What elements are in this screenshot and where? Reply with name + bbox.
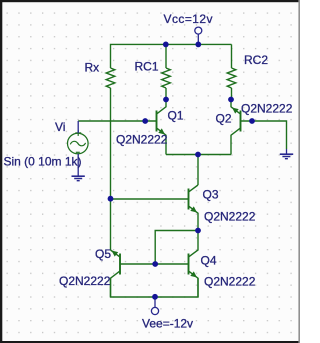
Vee bubble bbox=[154, 297, 156, 307]
svg-text:Q5: Q5 bbox=[95, 247, 111, 261]
resistor RC1 bbox=[165, 44, 167, 68]
Vcc bubble bbox=[195, 27, 202, 34]
transistor Q2 (rotated 180) bbox=[240, 111, 242, 132]
junction Q3 emitter / Q4 collector bbox=[195, 228, 201, 234]
Vi bottom pin stub bbox=[77, 154, 79, 176]
svg-text:Q1: Q1 bbox=[168, 109, 184, 123]
resistor Rx bbox=[106, 68, 115, 88]
svg-text:RC1: RC1 bbox=[135, 60, 159, 74]
junction Q1 base bbox=[142, 118, 148, 124]
transistor Q3 bbox=[188, 189, 190, 210]
wire left rail (Rx bottom to Q5 emitter) bbox=[110, 88, 112, 250]
transistor Q4 bbox=[188, 254, 190, 275]
wire tail node down to Q3 bbox=[197, 155, 199, 186]
svg-text:Vcc=12v: Vcc=12v bbox=[164, 12, 214, 26]
resistor RC2 bbox=[227, 68, 236, 88]
source Vi circle bbox=[68, 133, 89, 154]
ground AGND right of Q2 bbox=[286, 149, 288, 154]
svg-text:Q3: Q3 bbox=[203, 188, 219, 202]
transistor Q5 (rotated 180) bbox=[119, 254, 121, 275]
svg-text:RC2: RC2 bbox=[244, 53, 268, 67]
svg-text:Rx: Rx bbox=[85, 61, 100, 75]
svg-text:Q2N2222: Q2N2222 bbox=[116, 133, 168, 147]
junction Q3 base / left rail bbox=[108, 196, 114, 202]
svg-text:Q4: Q4 bbox=[201, 253, 217, 267]
Vi top pin stub bbox=[77, 121, 79, 133]
junction RC2/Q2 emitter bbox=[228, 97, 234, 103]
ground AGND under Vi bbox=[72, 175, 85, 177]
junction mirror base rail bbox=[152, 261, 158, 267]
wire top rail Vcc bbox=[111, 44, 232, 68]
wire Vi to Q1 base bbox=[78, 120, 156, 122]
svg-text:Q2N2222: Q2N2222 bbox=[204, 210, 256, 224]
svg-text:Sin (0 10m 1k): Sin (0 10m 1k) bbox=[4, 154, 82, 168]
svg-text:Vee=-12v: Vee=-12v bbox=[142, 316, 193, 330]
svg-text:Q2N2222: Q2N2222 bbox=[204, 275, 256, 289]
junction RC1 top bbox=[163, 42, 169, 48]
junction tail node bbox=[195, 152, 201, 158]
wire Q2 base to ground bbox=[241, 121, 287, 149]
wire base rail Q5-Q4 bbox=[120, 263, 189, 265]
svg-text:Q2N2222: Q2N2222 bbox=[59, 274, 111, 288]
junction RC1/Q1 collector bbox=[163, 97, 169, 103]
wire emitter rail of diff pair bbox=[166, 154, 231, 156]
wire Q3 base from left rail bbox=[111, 198, 189, 200]
svg-text:Vi: Vi bbox=[55, 120, 65, 134]
svg-text:Q2N2222: Q2N2222 bbox=[241, 101, 293, 115]
svg-text:Q2: Q2 bbox=[216, 111, 232, 125]
junction Vcc stub bbox=[195, 42, 201, 48]
wire RC2 drop bbox=[231, 44, 233, 68]
junction Vee tap bbox=[152, 294, 158, 300]
transistor Q1 bbox=[156, 111, 158, 132]
wire Q3 emitter to Q4 collector / mirror tap bbox=[155, 231, 198, 265]
wire bottom rail Vee bbox=[111, 278, 199, 297]
junction Q2 base bbox=[249, 118, 255, 124]
